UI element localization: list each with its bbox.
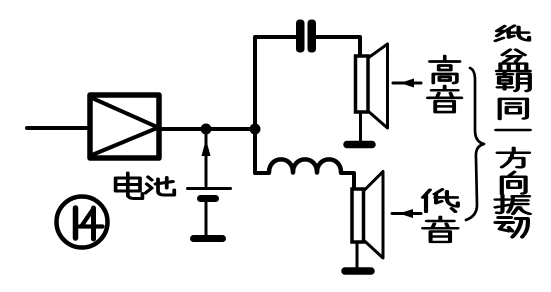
ground woofer — [345, 267, 371, 275]
op-amp triangle — [92, 98, 157, 155]
label 低音 — [423, 189, 458, 211]
wire inductor to woofer — [341, 173, 354, 189]
op-amp U1 amplifier box — [90, 95, 159, 158]
speaker LS2 woofer — [352, 189, 364, 242]
wire input — [27, 126, 88, 130]
arrow woofer direction — [392, 212, 421, 215]
wire woofer to ground — [356, 242, 359, 267]
wire node down to inductor — [255, 131, 269, 173]
node battery tap — [201, 124, 212, 135]
figure number 14 circled — [57, 197, 108, 248]
note column 纸盆朝同一方向振动 — [496, 26, 530, 41]
label 高音 — [430, 56, 460, 83]
capacitor C1 — [296, 20, 305, 53]
wire box to node — [159, 127, 258, 131]
wire tweeter to ground — [359, 112, 362, 140]
arrow up on battery lead — [202, 139, 211, 156]
wire battery lead — [205, 133, 208, 186]
node split — [250, 124, 261, 135]
wire battery to ground — [205, 202, 208, 235]
brace — [466, 68, 484, 220]
ground tweeter — [347, 141, 372, 149]
arrow tweeter direction — [393, 82, 421, 85]
ground battery — [194, 235, 223, 242]
wire capacitor to tweeter — [317, 37, 360, 57]
label 电池 — [116, 173, 143, 199]
wire node up to capacitor — [255, 37, 295, 131]
speaker LS1 tweeter — [356, 56, 369, 112]
inductor L1 — [269, 159, 341, 172]
battery B1 plates — [188, 187, 231, 190]
